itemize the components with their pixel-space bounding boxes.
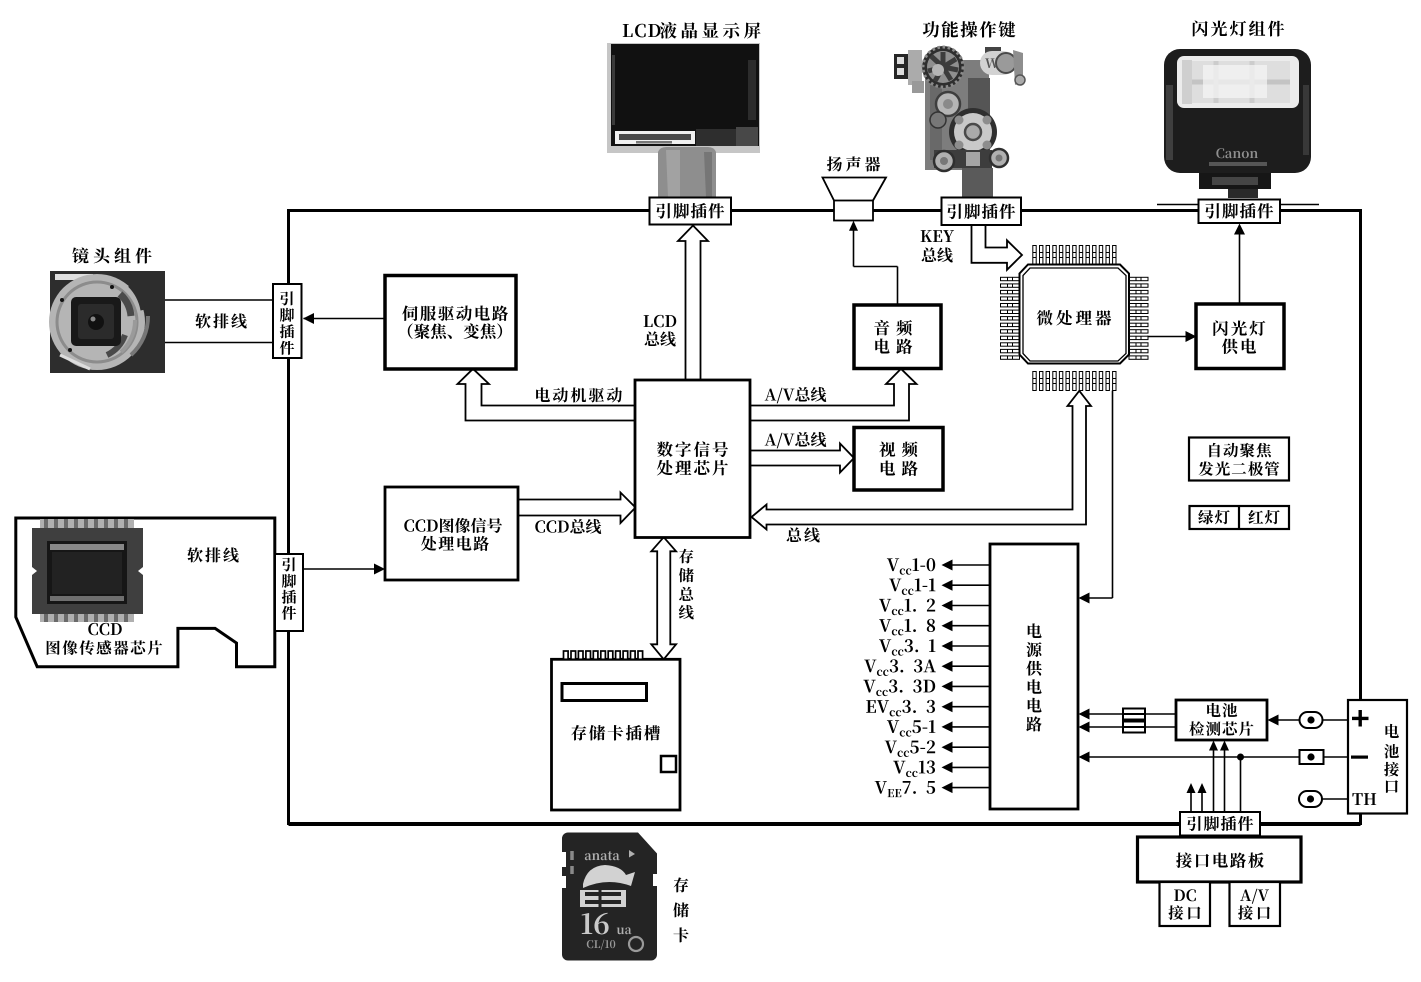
- box: 绿灯/红灯 (green/red LED): [1190, 506, 1290, 529]
- connector: 引脚插件 (lens, vertical): [273, 284, 302, 358]
- label: LCD总线: [644, 315, 677, 347]
- wire + label: supply output Vcc1-1: [889, 578, 990, 594]
- wire + label: supply output Vcc5-1: [887, 720, 990, 736]
- label: 电动机驱动: [536, 387, 622, 402]
- connector: 引脚插件 (LCD): [650, 198, 732, 225]
- photo: CCD image sensor chip: [27, 519, 148, 622]
- wire + label: supply output Vcc3.1: [879, 639, 990, 656]
- wire: detector to power supply (lower fused): [1079, 722, 1177, 733]
- box: A/V接口: [1230, 882, 1281, 926]
- wire + label: supply output VEE7.5: [875, 781, 990, 797]
- label: CCD: [88, 623, 121, 635]
- terminal: - square: [1300, 750, 1324, 764]
- box: 视频电路 (video): [854, 428, 943, 491]
- wire + label: supply output Vcc5-2: [885, 740, 990, 757]
- label: KEY总线: [921, 230, 954, 262]
- wire: microprocessor to power supply: [1079, 391, 1113, 604]
- wire + label: supply output EVcc3.3: [866, 700, 990, 717]
- bus: KEY bus (pin connector to microprocessor): [972, 225, 1023, 270]
- CCD flex-cable outline: [16, 518, 275, 667]
- photo: function keys assembly: [894, 46, 1025, 198]
- box: 电池接口 (battery interface): [1348, 700, 1407, 814]
- wire: short arrow from interface pins (1): [1187, 783, 1196, 812]
- box: DC接口: [1160, 882, 1211, 926]
- wire: flash power to pin connector: [1234, 224, 1245, 305]
- bus: memory bus (DSP to card slot, double headed): [651, 537, 676, 659]
- wire: lens flex lower: [165, 342, 273, 344]
- label: 闪光灯组件: [1193, 20, 1284, 36]
- wire + label: supply output Vcc3.3D: [863, 680, 990, 697]
- wire: battery - to power supply: [1079, 752, 1349, 763]
- label: CCD总线: [535, 519, 601, 534]
- IC: 微处理器 (microprocessor QFP): [1001, 246, 1149, 391]
- box: 伺服驱动电路 (servo drive): [385, 276, 516, 370]
- wire + label: supply output Vcc1-0: [887, 558, 990, 575]
- main circuit-board border: [289, 211, 1361, 824]
- box: 电源供电电路 (power supply): [990, 544, 1078, 809]
- wire: interface pin to minus rail: [1240, 757, 1242, 812]
- wire: short arrow from interface pins (2): [1198, 783, 1207, 812]
- fuse symbol upper: [1123, 709, 1145, 720]
- connector: 引脚插件 (flash): [1199, 200, 1281, 224]
- box: 存储卡插槽 (memory card slot): [552, 651, 681, 810]
- box: 音频电路 (audio): [854, 305, 941, 369]
- wire: battery TH to terminal: [1322, 798, 1348, 800]
- label: 软排线 (lens): [195, 313, 246, 328]
- wire: microprocessor to flash power: [1147, 331, 1197, 342]
- wire: interface pin to battery detector (1): [1209, 741, 1218, 813]
- wire: detector to power supply (upper fused): [1079, 709, 1177, 720]
- label: LCD液晶显示屏: [623, 22, 761, 39]
- terminal: TH oval: [1299, 791, 1322, 807]
- box: 接口电路板 (interface board): [1138, 837, 1302, 882]
- box: 电池检测芯片 (battery detector): [1176, 700, 1267, 740]
- photo: SD memory card: [559, 833, 659, 961]
- flash foot rail lines: [1157, 204, 1319, 206]
- wire: audio circuit to speaker: [849, 221, 898, 305]
- photo: flash assembly: [1164, 49, 1311, 198]
- label: 总线: [787, 527, 820, 542]
- box: 数字信号处理芯片 (DSP): [635, 380, 750, 538]
- label: A/V总线 (audio): [765, 387, 827, 404]
- box: CCD图像信号处理电路: [385, 487, 518, 580]
- photo: lens assembly: [49, 271, 165, 373]
- box: 自动聚焦发光二极管 (AF LED): [1189, 438, 1289, 481]
- bus: main bus (microprocessor to DSP): [752, 391, 1092, 530]
- speaker symbol: [823, 178, 887, 221]
- box: 闪光灯供电 (flash power): [1196, 304, 1284, 369]
- label: 软排线 (CCD): [187, 547, 238, 562]
- wire + label: supply output Vcc13: [893, 761, 990, 778]
- photo: LCD display module: [607, 43, 760, 197]
- fuse symbol lower: [1123, 722, 1145, 733]
- wire: CCD pin connector to CCD processor: [303, 564, 385, 575]
- bus: A/V bus to video circuit: [750, 444, 854, 473]
- bus: A/V bus to audio circuit: [750, 369, 917, 421]
- label: 图像传感器芯片: [47, 640, 162, 655]
- junction dot on - wire: [1237, 754, 1244, 761]
- connector: 引脚插件 (interface, bottom): [1180, 812, 1260, 836]
- wire + label: supply output Vcc1.2: [879, 599, 990, 616]
- wire + label: supply output Vcc1.8: [879, 619, 990, 636]
- label: 镜头组件: [72, 247, 151, 263]
- wire + label: supply output Vcc3.3A: [864, 659, 990, 676]
- label: 功能操作键: [923, 21, 1016, 38]
- wire: servo to pin connector: [303, 313, 385, 324]
- label: A/V总线 (video): [765, 432, 827, 449]
- wire: lens flex upper: [165, 299, 273, 301]
- label: 扬声器: [827, 156, 880, 171]
- connector: 引脚插件 (CCD, vertical): [275, 554, 303, 631]
- label: 存储总线 (vertical): [679, 549, 694, 620]
- label: 存储卡 (vertical): [673, 877, 689, 942]
- terminal: + oval: [1300, 712, 1323, 728]
- bus: LCD bus (DSP to LCD pin connector): [678, 226, 708, 381]
- connector: 引脚插件 (keys): [942, 198, 1022, 226]
- bus: CCD bus (CCD processor to DSP): [516, 493, 636, 524]
- bus: motor drive (DSP to servo): [458, 369, 636, 421]
- wire: interface pin to battery detector (2): [1220, 741, 1229, 813]
- wire: battery + to detector: [1268, 715, 1349, 726]
